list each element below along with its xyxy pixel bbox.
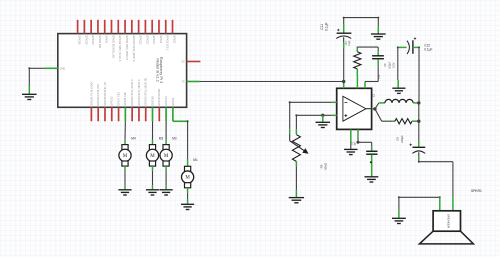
motor M2 bottom pin <box>165 166 167 171</box>
ground below M3 <box>146 190 159 195</box>
svg-text:M4: M4 <box>131 137 136 141</box>
svg-text:GPIO17: GPIO17 <box>152 35 156 45</box>
svg-text:GPIO2: GPIO2 <box>172 35 176 43</box>
svg-text:GPIO19: GPIO19 <box>84 35 88 45</box>
ground at plus input <box>316 122 331 127</box>
wire pin3 to C9 <box>365 67 378 82</box>
potentiometer R5 pin A <box>289 129 291 133</box>
svg-text:GPIO5: GPIO5 <box>105 35 109 43</box>
svg-text:GPIO9 SPI0_MISO S: GPIO9 SPI0_MISO S <box>125 35 129 60</box>
wire motor M2 to ground <box>165 171 167 185</box>
motor M3 top pin <box>152 140 154 145</box>
wire bypass pin to C6 <box>357 137 372 147</box>
op-amp top pin 3 (vs) <box>364 82 366 89</box>
junction dot inductor out <box>417 101 420 104</box>
svg-text:GPIO4: GPIO4 <box>171 97 175 105</box>
svg-text:GPIO23 SPI1_MOSI SE: GPIO23 SPI1_MOSI SE <box>144 78 148 106</box>
raspberry-pi bottom pin 1 (GPIO21) <box>89 81 93 122</box>
svg-text:GPIO6 PW: GPIO6 PW <box>98 35 102 48</box>
svg-text:100µF: 100µF <box>388 61 391 69</box>
capacitor C12 right pin <box>413 46 419 48</box>
raspberry-pi U2 body <box>58 34 187 108</box>
ground near speaker <box>392 218 406 223</box>
wire C12 right to output node <box>418 46 420 103</box>
op-amp minus symbol <box>345 101 348 103</box>
ground top-right pin <box>377 26 379 33</box>
resistor R1 body <box>395 119 412 124</box>
svg-text:M2: M2 <box>172 137 177 141</box>
potentiometer R5 body <box>290 134 309 162</box>
speaker left pin <box>439 197 441 211</box>
raspberry-pi bottom pin 13 (GPIO4) <box>171 97 175 121</box>
ground below C12 pin <box>397 80 399 88</box>
ground below M2 pin <box>165 185 167 189</box>
wire pi to motor M3 <box>152 121 154 140</box>
ground below M4 <box>118 190 131 195</box>
junction dot plus-input net <box>321 114 324 117</box>
wire pi to motor M1 <box>173 120 189 159</box>
potentiometer R5 bottom pin <box>295 161 297 166</box>
capacitor C11 value label small <box>346 40 351 46</box>
ground GND1 pin <box>28 85 30 94</box>
junction dot input node <box>342 80 345 83</box>
raspberry-pi top pin 6 (GPIO0) <box>111 20 115 58</box>
capacitor C6 <box>366 151 377 154</box>
junction dot op-amp output <box>373 107 376 110</box>
inductor L3 right pin <box>413 102 419 104</box>
capacitor C11 top pin <box>343 24 345 33</box>
motor M1 <box>182 166 194 188</box>
motor M2 top pin <box>165 140 167 145</box>
wire motor M1 to ground <box>187 193 189 200</box>
resistor R4 bottom pin <box>356 69 358 75</box>
svg-text:M1: M1 <box>193 158 198 162</box>
speaker SPKR1 cone <box>419 231 473 244</box>
resistor R1 left pin <box>392 120 395 122</box>
svg-text:GPIO21 PCM_DOUT: GPIO21 PCM_DOUT <box>89 81 93 106</box>
inductor L3 <box>385 99 413 103</box>
raspberry-pi top pin 12 (GPIO17) <box>152 20 156 45</box>
junction dot resistor out <box>417 120 420 123</box>
svg-text:1µF: 1µF <box>354 141 357 146</box>
raspberry-pi bottom pin 4 (GPIO12) <box>110 96 114 121</box>
ground below pot pin <box>295 190 297 197</box>
raspberry-pi bottom pin 8 (GPIO24) <box>137 79 141 121</box>
raspberry-pi top pin 14 (GPIO3) <box>166 20 170 51</box>
svg-text:GPIO10 SPI0_MOSI S: GPIO10 SPI0_MOSI S <box>132 35 136 62</box>
raspberry-pi top pin 1 (GPIO26) <box>78 20 82 45</box>
motor M1 top pin <box>187 159 189 166</box>
wire output node vertical <box>418 103 420 141</box>
svg-text:10kΩ: 10kΩ <box>324 162 328 170</box>
ground GND1 <box>22 94 37 99</box>
op-amp output lead <box>366 108 372 110</box>
motor M2 <box>160 145 172 167</box>
capacitor C11 (polarized) <box>336 29 351 39</box>
raspberry-pi top pin 15 (GPIO2) <box>172 20 176 44</box>
capacitor C12 left pin <box>398 46 407 48</box>
svg-text:C8: C8 <box>395 137 399 141</box>
inductor L3 left pin <box>379 102 385 104</box>
ground below M4 pin <box>124 185 126 189</box>
capacitor C9 bottom pin <box>377 59 379 67</box>
svg-text:GPIO18: GPIO18 <box>150 96 154 106</box>
capacitor C8 bottom pin <box>418 152 420 156</box>
raspberry-pi top pin 2 (GPIO19) <box>84 20 88 45</box>
svg-text:GPIO3 SCL1: GPIO3 SCL1 <box>166 35 170 51</box>
wire op-amp minus input to pot terminal <box>289 101 332 129</box>
svg-text:M: M <box>123 154 128 159</box>
svg-text:0.1µF: 0.1µF <box>424 48 432 52</box>
svg-text:L3: L3 <box>371 94 375 97</box>
svg-text:GPIO22: GPIO22 <box>139 35 143 45</box>
resistor R1 right pin <box>412 120 419 122</box>
ground at plus input pin <box>322 115 324 122</box>
raspberry-pi top pin 11 (GPIO27) <box>145 20 149 45</box>
speaker right pin <box>452 196 454 211</box>
svg-text:GPIO7 CE1: GPIO7 CE1 <box>116 92 120 106</box>
motor M3 bottom pin <box>152 166 154 171</box>
speaker SPKR1 body <box>433 211 460 231</box>
capacitor C6 top pin <box>371 147 373 151</box>
op-amp plus symbol <box>344 115 347 117</box>
op-amp plus input pin <box>332 114 337 116</box>
raspberry-pi top pin 10 (GPIO22) <box>139 20 143 45</box>
svg-text:GPIO12: GPIO12 <box>110 96 114 106</box>
wire pot to ground <box>295 166 297 190</box>
op-amp output pin <box>372 108 376 110</box>
svg-text:M3: M3 <box>159 137 164 141</box>
raspberry-pi bottom pin 9 (GPIO23) <box>144 78 148 122</box>
raspberry-pi top pin 4 (GPIO6) <box>98 20 102 49</box>
raspberry-pi bottom pin 6 (GPIO8) <box>123 92 127 122</box>
ground below pot <box>289 198 304 203</box>
svg-text:GPIO8 CE0: GPIO8 CE0 <box>123 92 127 106</box>
wire GND pin to ground <box>28 67 44 85</box>
motor M4 bottom pin <box>124 166 126 171</box>
raspberry-pi bottom pin 7 (GPIO25) <box>130 79 134 121</box>
svg-text:GND: GND <box>60 68 66 71</box>
op-amp bottom bypass pin <box>357 129 359 136</box>
ground below op-amp <box>344 149 357 154</box>
svg-text:Model B v1.2: Model B v1.2 <box>155 58 160 82</box>
motor M1 bottom pin <box>187 188 189 193</box>
op-amp minus input pin <box>332 101 337 103</box>
raspberry-pi right pin 5V (unconnected) <box>182 61 201 64</box>
op-amp top pin 1 (input node) <box>343 82 345 89</box>
wire speaker left to ground <box>398 196 441 210</box>
raspberry-pi bottom pin 12 (GPIO14) <box>164 96 168 121</box>
wire output to inductor <box>375 103 379 109</box>
capacitor C11 bottom pin <box>343 37 345 43</box>
raspberry-pi bottom pin 2 (GPIO20) <box>96 84 100 121</box>
ground below C6 <box>364 177 378 182</box>
wire pi to motor M4 <box>124 121 126 140</box>
raspberry-pi top pin 9 (GPIO10) <box>132 20 136 62</box>
svg-text:GPIO20 PCM_DIN: GPIO20 PCM_DIN <box>96 84 100 106</box>
capacitor C8 (polarized) <box>410 144 426 154</box>
svg-text:M: M <box>185 176 190 181</box>
wire gnd pin stub <box>350 144 352 149</box>
svg-text:220µF: 220µF <box>400 135 404 143</box>
wire C8 to speaker <box>418 161 453 196</box>
capacitor C9 label <box>384 61 396 69</box>
wire motor M3 to ground <box>152 171 154 185</box>
svg-text:GPIO25 SPI1_SCLK S: GPIO25 SPI1_SCLK S <box>130 79 134 106</box>
raspberry-pi top pin 8 (GPIO9) <box>125 20 129 60</box>
svg-text:GPIO26: GPIO26 <box>78 35 82 45</box>
raspberry-pi bottom pin 3 (GPIO16) <box>103 81 107 121</box>
wire motor M4 to ground <box>124 171 126 185</box>
capacitor C8 label <box>395 135 403 143</box>
svg-text:GPIO24 SPI1_MISO S: GPIO24 SPI1_MISO S <box>137 79 141 106</box>
raspberry-pi bottom pin 11 (GPIO15) <box>157 88 161 121</box>
motor M4 top pin <box>124 140 126 145</box>
svg-text:GPIO13: GPIO13 <box>91 35 95 45</box>
svg-text:M: M <box>164 154 169 159</box>
ground below speaker wire pin <box>398 210 400 218</box>
svg-text:0.1µF: 0.1µF <box>325 22 329 31</box>
potentiometer R5 label <box>320 162 328 170</box>
wire R4 top to C9 top <box>357 47 378 51</box>
wire C11 to op-amp input node <box>343 48 345 82</box>
svg-text:GPIO0 BCM ID_SD: GPIO0 BCM ID_SD <box>111 35 115 58</box>
svg-text:10µF: 10µF <box>349 40 351 46</box>
raspberry-pi bottom pin 5 (GPIO7) <box>116 92 120 122</box>
capacitor C11 label <box>320 22 329 31</box>
motor M4 <box>119 145 131 167</box>
svg-text:6.3V: 6.3V <box>393 62 396 67</box>
ground below M3 pin <box>152 185 154 189</box>
raspberry-pi left pin GND (connected) <box>44 68 65 71</box>
svg-text:16V: 16V <box>346 41 348 46</box>
raspberry-pi right pin TX (connected) <box>182 81 200 84</box>
capacitor C12 (polarized) <box>407 37 416 54</box>
svg-text:GPIO4: GPIO4 <box>159 35 163 43</box>
op-amp bottom gnd pin <box>350 129 352 143</box>
potentiometer R5 wiper pin <box>295 129 297 134</box>
svg-text:TX: TX <box>182 81 185 84</box>
wire TX net (pi to amplifier input node) <box>200 81 344 83</box>
resistor R4 body <box>354 52 361 69</box>
motor M3 <box>146 145 158 167</box>
ground below M1 pin <box>187 200 189 204</box>
wire op-amp plus input to pot wiper <box>295 114 332 129</box>
ground top-right <box>371 34 386 39</box>
op-amp U1 triangle <box>343 96 366 121</box>
op-amp U1 body <box>337 88 372 129</box>
svg-text:GPIO11 SPI0_SCLK S: GPIO11 SPI0_SCLK S <box>118 35 122 61</box>
capacitor C8 top pin <box>418 141 420 147</box>
ground below M2 <box>160 190 173 195</box>
capacitor C9 top pin <box>377 51 379 55</box>
svg-text:GPIO14: GPIO14 <box>164 96 168 106</box>
svg-text:GPIO15 RXD0: GPIO15 RXD0 <box>157 88 161 106</box>
wire pi to motor M2 <box>165 121 167 140</box>
raspberry-pi U2 name label <box>155 57 164 84</box>
raspberry-pi top pin 3 (GPIO13) <box>91 20 95 45</box>
svg-text:GPIO16 BCM ID_SC: GPIO16 BCM ID_SC <box>103 81 107 105</box>
capacitor C12 label <box>424 44 432 52</box>
raspberry-pi bottom pin 10 (GPIO18) <box>150 96 154 121</box>
raspberry-pi top pin 5 (GPIO5) <box>105 20 109 44</box>
svg-text:C11: C11 <box>320 24 324 30</box>
capacitor C9 <box>372 56 384 59</box>
wire C12 left to ground <box>397 46 399 80</box>
svg-text:SPKR1: SPKR1 <box>471 189 482 193</box>
ground below C12 <box>392 88 405 93</box>
wire C11 to ground (top) <box>343 17 380 27</box>
svg-text:5V: 5V <box>182 61 185 64</box>
capacitor C6 label <box>350 141 356 146</box>
op-amp top pin 2 (bypass) <box>356 75 358 88</box>
raspberry-pi top pin 13 (GPIO4) <box>159 20 163 44</box>
capacitor C6 bottom pin / wire to ground <box>370 155 372 177</box>
ground below M1 <box>181 204 194 209</box>
svg-text:M: M <box>150 154 155 159</box>
svg-text:SPEAKER: SPEAKER <box>446 214 450 229</box>
resistor R4 top pin <box>356 47 358 52</box>
wire output to resistor R1 <box>375 109 393 121</box>
raspberry-pi top pin 7 (GPIO11) <box>118 20 122 62</box>
svg-text:GPIO27: GPIO27 <box>145 35 149 45</box>
